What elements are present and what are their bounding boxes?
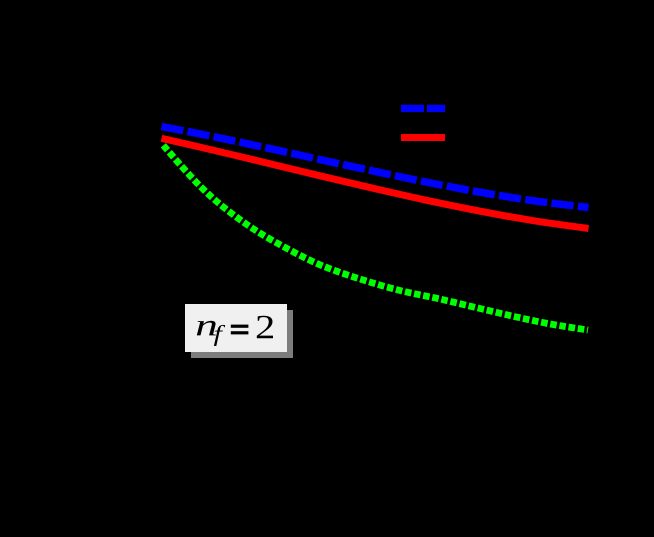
legend sample: red solid: [401, 134, 445, 141]
label text equals sign: [231, 325, 249, 328]
label text n: [197, 321, 216, 336]
label box n_f = 2: [185, 304, 287, 352]
legend sample: blue dashed: [401, 105, 445, 112]
label text f subscript: [214, 325, 225, 346]
blue dashed curve: [162, 127, 589, 208]
label text 2: [257, 316, 273, 339]
green dotted curve: [163, 145, 588, 330]
red solid curve: [162, 138, 589, 228]
